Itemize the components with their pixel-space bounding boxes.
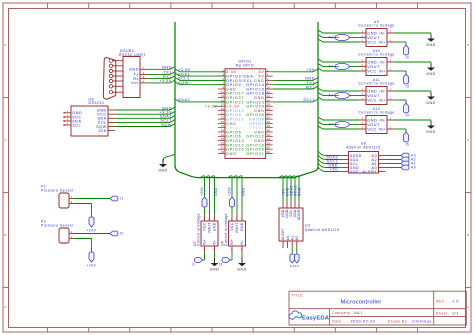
svg-text:IN-: IN-: [379, 89, 386, 93]
frame ticks: [47, 3, 49, 9]
U8 right pins A3 A2 A1 A0 ALERT with ports: [379, 155, 386, 157]
wire U9 IN+ to port t2: [394, 41, 406, 43]
wire P2 pin1 to port t2: [74, 233, 110, 235]
svg-text:1: 1: [362, 98, 364, 101]
port +20V inline on U7 VCC: [202, 197, 207, 207]
svg-text:A?: A?: [329, 65, 334, 69]
svg-text:Current to Voltage: Current to Voltage: [224, 213, 228, 246]
svg-text:Date:: Date:: [332, 319, 343, 323]
svg-text:GND: GND: [426, 101, 435, 105]
svg-text:SCL: SCL: [72, 123, 81, 127]
U8 body rect: [349, 152, 379, 174]
svg-text:GND: GND: [298, 187, 302, 196]
svg-text:GND: GND: [158, 168, 167, 172]
svg-text:Current to Voltage: Current to Voltage: [358, 53, 394, 57]
U7 top pins VCC VOUT GND: [204, 214, 206, 221]
EasyEDA logo: [289, 311, 330, 322]
svg-text:2: 2: [362, 35, 364, 38]
svg-text:t2: t2: [406, 56, 410, 60]
U7 bottom pins IN+ IN-: [204, 246, 206, 253]
svg-text:SDA2: SDA2: [178, 98, 190, 102]
svg-text:3: 3: [362, 118, 364, 121]
ground symbol at U10: [430, 63, 432, 68]
svg-text:2: 2: [362, 122, 364, 125]
svg-text:t3: t3: [406, 85, 410, 89]
wires swoop to U7: +20V VOUT GND: [201, 176, 205, 197]
svg-text:Rp GPIO: Rp GPIO: [236, 63, 254, 67]
svg-text:+3.3V: +3.3V: [205, 104, 217, 108]
svg-text:SQW: SQW: [161, 123, 172, 127]
U3 top pins VDD GND SCL SDA ADDR with wires to swoop: [282, 201, 284, 208]
wire P1 pin1 to port t1: [74, 198, 110, 200]
P1 pins 1 2: [69, 198, 74, 200]
wires U9 to right bus: [323, 32, 359, 34]
svg-text:VCC: VCC: [203, 222, 207, 230]
svg-text:Drawn By:: Drawn By:: [388, 319, 409, 323]
svg-text:2: 2: [362, 93, 364, 96]
svg-text:VOUT: VOUT: [367, 36, 380, 40]
svg-text:+20V: +20V: [87, 228, 97, 232]
P2 pins 1 2: [69, 233, 74, 235]
svg-text:B: B: [467, 233, 470, 237]
svg-text:VOUT: VOUT: [235, 222, 239, 233]
wires bus to GPIO1 rows1-4: +3.3V SDA1 SCL1 SQW: [180, 71, 225, 73]
wire U7 IN- to ground: [214, 253, 216, 259]
wire U11 IN- to ground: [394, 90, 431, 92]
U5 top pins VCC VOUT GND: [231, 214, 233, 221]
svg-text:GND: GND: [426, 72, 435, 76]
wire P1 pin2 to +20V port: [74, 203, 92, 205]
net label +3.3V at GPIO1 row9: [214, 105, 218, 107]
U3 bottom pins ALERT A0 A1 A2 with ports: [282, 241, 284, 248]
svg-text:A2: A2: [295, 235, 299, 240]
svg-text:IN+: IN+: [379, 127, 386, 131]
svg-text:VOUT: VOUT: [367, 94, 380, 98]
svg-text:ALERT: ALERT: [362, 170, 377, 174]
svg-text:GND: GND: [426, 43, 435, 47]
svg-text:GND: GND: [242, 187, 246, 196]
svg-text:A: A: [467, 305, 470, 309]
svg-text:3: 3: [362, 89, 364, 92]
svg-text:EasyEDA: EasyEDA: [302, 316, 330, 322]
svg-text:3: 3: [362, 31, 364, 34]
svg-text:1.0: 1.0: [452, 300, 459, 304]
svg-text:A2: A2: [294, 264, 299, 268]
ammeter A? inline on U12 VOUT wire: [335, 121, 349, 127]
svg-text:VOUT: VOUT: [367, 123, 380, 127]
ground symbol below U7: [214, 258, 216, 263]
U8 left pins ADDR SDA SCL GND VDD with nets: [339, 155, 349, 157]
U10 right pins IN- IN+: [387, 61, 394, 63]
ammeter A? inline on U11 VOUT wire: [335, 92, 349, 98]
svg-text:IN-: IN-: [240, 240, 244, 246]
GPIO1 right pins rows 2-40: [266, 71, 273, 73]
svg-text:A0: A0: [411, 166, 416, 170]
svg-text:Current to Voltage: Current to Voltage: [196, 213, 200, 246]
U6 left pins GND VCC SDA SCL: [64, 112, 71, 114]
svg-text:Company:: Company:: [332, 311, 352, 315]
GPIO1 body rect: [225, 69, 266, 159]
svg-text:t1: t1: [120, 197, 124, 201]
svg-text:A?: A?: [329, 123, 334, 127]
svg-text:39: 39: [221, 150, 225, 154]
svg-text:Current to Voltage: Current to Voltage: [358, 24, 394, 28]
port t4: [404, 103, 409, 113]
connector DSUB2 shell: [103, 57, 116, 99]
U11 right pins IN- IN+: [387, 90, 394, 92]
svg-text:GND: GND: [162, 66, 172, 70]
svg-text:IN+: IN+: [379, 69, 386, 73]
svg-text:ALERT: ALERT: [281, 228, 285, 240]
svg-text:1/1: 1/1: [452, 311, 459, 315]
ground symbol at U9: [430, 34, 432, 39]
ammeter A? inline on U9 VOUT wire: [335, 34, 349, 40]
svg-text:GPIO21: GPIO21: [246, 152, 264, 156]
svg-text:TITLE:: TITLE:: [292, 293, 305, 297]
svg-text:t4: t4: [406, 114, 410, 118]
U6 body rect: [71, 106, 108, 136]
ground symbol at U11: [430, 92, 432, 97]
svg-text:GND: GND: [367, 60, 377, 64]
svg-text:IN+: IN+: [203, 239, 207, 245]
svg-text:GND: GND: [214, 187, 218, 196]
wire U5 IN- to ground: [241, 253, 243, 259]
svg-text:IN+: IN+: [379, 98, 386, 102]
svg-text:D: D: [4, 43, 7, 47]
svg-text:A: A: [4, 305, 7, 309]
svg-text:+20V: +20V: [87, 263, 97, 267]
wires GPIO1 to right bus: +5V GND TX1 RX1 SCL2: [273, 71, 313, 73]
wire left bus vertical: [174, 22, 176, 167]
wire U10 IN- to ground: [394, 61, 431, 63]
svg-text:VCC: VCC: [367, 69, 377, 73]
svg-text:VOUT: VOUT: [208, 222, 212, 233]
svg-text:I2: I2: [219, 263, 223, 267]
svg-text:A0: A0: [286, 235, 290, 240]
svg-text:A1: A1: [290, 235, 294, 240]
svg-text:IN+: IN+: [379, 40, 386, 44]
P1 body: [59, 193, 69, 208]
svg-text:VDD: VDD: [350, 170, 359, 174]
U6 right pins and wires GND +3.3V SDA1 SCL1 SQW: [108, 109, 115, 111]
svg-text:SCL2: SCL2: [303, 98, 315, 102]
U3 body rect: [279, 208, 303, 241]
U9 right pins IN- IN+: [387, 32, 394, 34]
DSUB2 body rect: [123, 57, 140, 98]
svg-text:+20V: +20V: [228, 186, 232, 196]
svg-text:I1: I1: [192, 263, 196, 267]
svg-text:1: 1: [362, 127, 364, 130]
svg-text:ADDR: ADDR: [297, 209, 301, 220]
svg-text:GND: GND: [129, 68, 139, 72]
title block outer: [289, 291, 466, 325]
svg-text:Pressure Sensor: Pressure Sensor: [41, 189, 74, 193]
svg-text:3: 3: [362, 60, 364, 63]
ground symbol below U5: [241, 258, 243, 263]
svg-text:Current to Voltage: Current to Voltage: [358, 111, 394, 115]
svg-text:IULI: IULI: [354, 311, 363, 315]
svg-text:GND: GND: [367, 89, 377, 93]
svg-text:GND: GND: [210, 267, 219, 271]
svg-text:2020-02-20: 2020-02-20: [351, 319, 376, 323]
port t3: [404, 74, 409, 84]
svg-text:IN-: IN-: [379, 118, 386, 122]
svg-text:40: 40: [267, 150, 271, 154]
wires U10 to right bus: [323, 61, 359, 63]
svg-text:SQW: SQW: [178, 81, 189, 85]
svg-text:GND: GND: [237, 267, 246, 271]
ground symbol below left bus: [162, 159, 164, 164]
svg-text:C: C: [467, 138, 470, 142]
wires DSUB2 to bus: GND TX1 RX1 +3.3V: [147, 68, 170, 70]
svg-text:GND: GND: [367, 118, 377, 122]
svg-text:RX1: RX1: [306, 85, 315, 89]
port +20V inline on U5 VCC: [230, 197, 235, 207]
svg-text:2: 2: [362, 64, 364, 67]
wire U12 IN+ to port t5: [394, 128, 406, 130]
svg-text:Vcc: Vcc: [131, 81, 139, 85]
svg-text:clintonyo: clintonyo: [412, 319, 432, 323]
svg-text:GND: GND: [240, 222, 244, 231]
svg-text:A?: A?: [329, 94, 334, 98]
svg-text:t2: t2: [120, 232, 124, 236]
svg-text:Adafruit ADS1115: Adafruit ADS1115: [346, 146, 381, 150]
svg-text:t5: t5: [406, 143, 410, 147]
svg-text:GND: GND: [213, 222, 217, 231]
svg-text:+5V: +5V: [306, 68, 315, 72]
svg-text:IN-: IN-: [379, 31, 386, 35]
wire U7 IN+ to port I1: [204, 253, 206, 260]
svg-text:D: D: [467, 43, 470, 47]
svg-text:A?: A?: [329, 36, 334, 40]
svg-text:32K: 32K: [98, 129, 106, 133]
svg-text:VOUT: VOUT: [367, 65, 380, 69]
wire U9 IN- to ground: [394, 32, 431, 34]
svg-text:Sheet:: Sheet:: [436, 311, 449, 315]
svg-text:Pressure Sensor: Pressure Sensor: [41, 224, 74, 228]
svg-text:+20V: +20V: [200, 186, 204, 196]
U12 right pins IN- IN+: [387, 119, 394, 121]
wire SDA2 to GPIO1 row8: [180, 101, 225, 103]
wires U12 to right bus: [323, 119, 359, 121]
svg-text:Adafruit ADS1115: Adafruit ADS1115: [305, 228, 340, 232]
port t5: [404, 132, 409, 142]
ammeter A? inline on U10 VOUT wire: [335, 63, 349, 69]
wire U11 IN+ to port t4: [394, 99, 406, 101]
svg-text:Microcontroller: Microcontroller: [340, 300, 381, 306]
svg-text:GND: GND: [426, 130, 435, 134]
svg-text:IN-: IN-: [379, 60, 386, 64]
svg-text:+3.3V: +3.3V: [159, 79, 172, 83]
svg-text:1: 1: [362, 40, 364, 43]
port +20V below P2: [89, 252, 94, 262]
wires U11 to right bus: [323, 90, 359, 92]
P2 body: [59, 228, 69, 243]
svg-text:VCC: VCC: [230, 222, 234, 230]
svg-text:VCC: VCC: [367, 127, 377, 131]
port +20V below P1: [89, 217, 94, 227]
svg-text:GND: GND: [367, 31, 377, 35]
GPIO1 left pins rows 1-39: [218, 71, 225, 73]
svg-text:1: 1: [362, 69, 364, 72]
svg-text:VCC: VCC: [367, 40, 377, 44]
wires right bus to U8: [318, 151, 339, 156]
U5 bottom pins IN+ IN-: [231, 246, 233, 253]
svg-text:Current to Voltage: Current to Voltage: [358, 82, 394, 86]
svg-text:U3: U3: [305, 223, 310, 227]
connector DSUB2 pin circles and leads: [109, 59, 112, 62]
wire U12 IN- to ground: [394, 119, 431, 121]
svg-text:B: B: [4, 233, 7, 237]
wire P2 pin2 to +20V port: [74, 238, 92, 240]
svg-text:IN+: IN+: [230, 239, 234, 245]
svg-text:C: C: [4, 138, 7, 142]
wire gnd stub from left bus: [163, 154, 175, 163]
svg-text:REV:: REV:: [436, 300, 446, 304]
svg-text:GND: GND: [226, 152, 237, 156]
wire bus swoop bottom: [175, 166, 318, 178]
svg-text:VCC: VCC: [367, 98, 377, 102]
title block dividers: [289, 308, 466, 310]
svg-text:IN-: IN-: [213, 240, 217, 246]
svg-text:DS3231: DS3231: [89, 101, 105, 105]
wire right bus vertical: [317, 22, 319, 169]
port t2: [404, 45, 409, 55]
ground symbol at U12: [430, 121, 432, 126]
wire U5 IN+ to port I2: [231, 253, 233, 260]
wires swoop to U5: +20V VOUT GND: [228, 176, 232, 197]
wire U10 IN+ to port t3: [394, 70, 406, 72]
